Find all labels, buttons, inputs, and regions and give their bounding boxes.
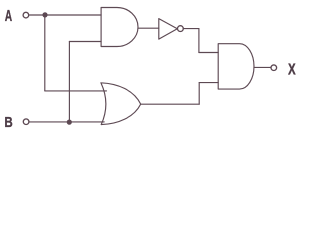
input terminal A	[23, 12, 29, 18]
wire down to AND U4 input 1 level	[198, 29, 200, 53]
wire A branch to OR gate input 1	[45, 90, 107, 92]
wire B branch up	[68, 42, 70, 123]
svg-text:B: B	[4, 113, 13, 130]
wire B to OR gate input 2	[29, 121, 104, 123]
wire inverter output	[183, 28, 199, 30]
AND gate U4	[218, 44, 254, 89]
junction dot on B line	[67, 120, 72, 125]
wire A to AND gate input 1	[29, 14, 101, 16]
inverter U2 triangle	[159, 19, 178, 39]
input terminal B	[23, 119, 29, 125]
wire A branch down	[44, 15, 46, 91]
svg-text:X: X	[288, 60, 296, 78]
wire B branch to AND gate input 2	[69, 41, 101, 43]
wire OR output	[141, 103, 200, 105]
wire to AND U4 input 2	[199, 82, 218, 84]
wire U4 output to terminal X	[254, 66, 270, 68]
wire to AND U4 input 1	[199, 52, 218, 54]
wire U1 output to inverter	[138, 27, 159, 29]
wire up to AND U4 input 2 level	[198, 83, 200, 105]
OR gate U3	[101, 83, 141, 125]
output terminal X	[271, 65, 277, 71]
inverter U2 bubble	[178, 26, 184, 32]
AND gate U1	[101, 8, 138, 47]
junction dot on A line	[42, 12, 47, 17]
svg-text:A: A	[5, 7, 13, 25]
